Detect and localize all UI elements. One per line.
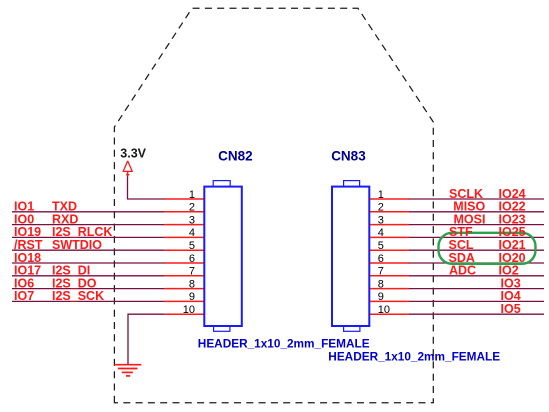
svg-text:4: 4 [378, 227, 384, 239]
svg-text:1: 1 [189, 189, 195, 201]
svg-text:4: 4 [189, 227, 195, 239]
svg-text:6: 6 [378, 253, 384, 265]
svg-text:5: 5 [378, 240, 384, 252]
svg-text:9: 9 [378, 291, 384, 303]
svg-text:I2S_SCK: I2S_SCK [52, 289, 104, 303]
svg-text:2: 2 [189, 202, 195, 214]
svg-text:1: 1 [378, 189, 384, 201]
svg-text:7: 7 [189, 266, 195, 278]
svg-text:HEADER_1x10_2mm_FEMALE: HEADER_1x10_2mm_FEMALE [328, 350, 500, 364]
svg-text:8: 8 [378, 278, 384, 290]
svg-text:3: 3 [378, 214, 384, 226]
svg-text:10: 10 [183, 304, 195, 316]
svg-text:5: 5 [189, 240, 195, 252]
svg-text:7: 7 [378, 266, 384, 278]
svg-text:SWTDIO: SWTDIO [52, 238, 102, 252]
svg-text:HEADER_1x10_2mm_FEMALE: HEADER_1x10_2mm_FEMALE [198, 337, 370, 351]
svg-text:ADC: ADC [449, 264, 476, 278]
svg-text:10: 10 [378, 304, 390, 316]
svg-text:CN83: CN83 [331, 149, 366, 164]
svg-text:3.3V: 3.3V [120, 146, 146, 160]
svg-text:2: 2 [378, 202, 384, 214]
svg-text:3: 3 [189, 214, 195, 226]
svg-text:CN82: CN82 [218, 149, 253, 164]
svg-text:IO5: IO5 [501, 302, 521, 316]
svg-text:9: 9 [189, 291, 195, 303]
svg-text:IO7: IO7 [14, 289, 34, 303]
svg-text:6: 6 [189, 253, 195, 265]
svg-text:8: 8 [189, 278, 195, 290]
